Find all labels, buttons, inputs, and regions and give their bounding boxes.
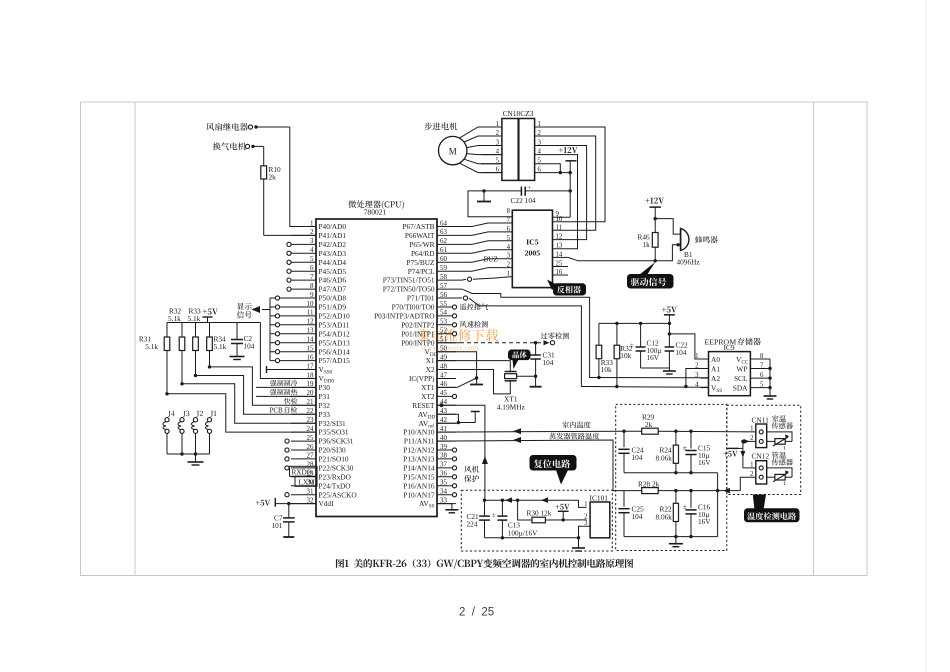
resistor R33 5.1k (188, 307, 202, 376)
wire CN18CZ3 pin4 to IC5 pin13 (535, 155, 578, 249)
ground below C31 (530, 386, 542, 388)
IC9 pin labels A0 A1 A2 Vss Vcc WP SCL SDA (711, 355, 749, 394)
svg-text:P74/PCL: P74/PCL (408, 267, 435, 276)
IC5 right pin numbers (553, 211, 569, 276)
svg-text:104: 104 (632, 512, 643, 521)
svg-text:13: 13 (556, 243, 563, 250)
svg-text:P67/ASTB: P67/ASTB (402, 222, 434, 231)
svg-text:IC101: IC101 (590, 493, 609, 502)
wire CPU pin49 X1 to crystal top (437, 361, 510, 372)
svg-text:P14/AN14: P14/AN14 (403, 464, 435, 473)
svg-text:12: 12 (556, 234, 563, 241)
svg-text:5.1k: 5.1k (145, 342, 158, 351)
svg-text:5.1k: 5.1k (214, 342, 227, 351)
wire CPU pin43 AVDD (437, 414, 460, 424)
svg-text:P12/AN12: P12/AN12 (403, 446, 435, 455)
CPU pins 3-8 open terminals (287, 242, 291, 291)
svg-text:P71/TI01: P71/TI01 (407, 294, 435, 303)
svg-text:16V: 16V (647, 353, 660, 362)
svg-text:P13/AN13: P13/AN13 (403, 455, 435, 464)
svg-text:P73/TIN51/TO51: P73/TIN51/TO51 (383, 276, 435, 285)
+12V supply top (559, 147, 578, 217)
jumper J2 (192, 411, 204, 454)
wire R10 to CPU pin2 (264, 234, 316, 236)
stepper motor 步进电机 M (424, 122, 502, 172)
svg-text:224: 224 (467, 519, 478, 528)
zero-cross line 过零检测 pin51 (437, 332, 569, 345)
CPU title 微处理器(CPU) 780021 (348, 200, 404, 216)
+5V supply sensors (723, 448, 738, 456)
connector CN11 room sensor (750, 415, 793, 447)
resistor R22 8.06k (656, 491, 679, 537)
svg-text:A2: A2 (711, 374, 720, 383)
wire CPU pin44 RESET to reset circuit (437, 403, 488, 500)
svg-text:CN11: CN11 (752, 415, 770, 424)
resistor R28 2k (624, 477, 756, 493)
capacitor C13 100u/16V (492, 500, 538, 538)
svg-text:2005: 2005 (525, 249, 541, 258)
svg-text:P42/AD2: P42/AD2 (319, 240, 347, 249)
svg-text:P45/AD5: P45/AD5 (319, 267, 347, 276)
ground below C7 (283, 536, 294, 538)
wire J1 column to CPU pin21 (210, 367, 317, 405)
svg-text:104: 104 (632, 453, 643, 462)
display signal bracket 显示信号 pins 9-16 (237, 296, 291, 363)
wire +5V rail to CPU pin18 VDD0 (260, 323, 316, 379)
+5V supply to CPU pin32 VddI (256, 498, 316, 507)
svg-text:10k: 10k (601, 365, 612, 374)
svg-text:IC5: IC5 (526, 238, 539, 247)
svg-text:CN18CZ3: CN18CZ3 (503, 109, 534, 118)
svg-text:P47/AD7: P47/AD7 (319, 285, 347, 294)
capacitor C31 104 (530, 343, 555, 387)
+5V rail top left (167, 309, 260, 323)
CPU pin17 VSS0 stub with tick (267, 366, 317, 373)
ground below pin50 node (470, 378, 483, 385)
svg-text:P54/AD12: P54/AD12 (319, 329, 351, 338)
evaporator pipe temp line 蒸发器管路温度 CPU pin40 (437, 433, 624, 491)
wire CPU pin1 to fan relay (290, 127, 316, 227)
CPU left pin stub lines (291, 227, 316, 504)
capacitor C12 100u 16V (630, 323, 669, 368)
svg-text:P11/AN11: P11/AN11 (404, 437, 435, 446)
net label LXM box pin30 (295, 476, 317, 486)
reset circuit dashed box (461, 490, 612, 551)
svg-text:P41/AD1: P41/AD1 (319, 231, 347, 240)
wire CN18CZ3 pin1 to IC5 pin10 (535, 127, 605, 222)
connector CN12 pipe sensor (750, 452, 793, 484)
svg-text:4.19MHz: 4.19MHz (497, 402, 526, 411)
svg-text:P66WAIT: P66WAIT (405, 231, 435, 240)
CN18CZ3 right pin numbers (538, 121, 542, 174)
+5V supply reset (555, 504, 569, 520)
vent motor terminal 换气电机 (213, 142, 264, 150)
wire IC9 A1 loop (684, 369, 700, 389)
svg-text:P22/SCK30: P22/SCK30 (319, 464, 354, 473)
svg-text:P00/INTP0: P00/INTP0 (401, 338, 435, 347)
CPU pin31 open terminal (285, 493, 289, 497)
wire J4 column to CPU pin24 (167, 394, 316, 432)
svg-text:P65/WR: P65/WR (409, 240, 434, 249)
svg-text:P01/INTP1: P01/INTP1 (401, 329, 435, 338)
svg-text:IC9: IC9 (723, 343, 734, 352)
CPU pins 39-34 open terminals (452, 448, 456, 497)
wire CPU pin48 X2 to crystal bottom (437, 370, 510, 394)
crystal label bubble 晶体 (509, 350, 531, 369)
svg-text:P02/INTP2: P02/INTP2 (401, 320, 435, 329)
CPU left pin name labels (319, 222, 357, 508)
wire +5V to CN11 pin2 and CN12 pin1 (733, 439, 756, 468)
wire CN18CZ3 pin6 +12V line (535, 171, 572, 174)
ground below sensor box (669, 537, 683, 547)
svg-text:X2: X2 (426, 365, 435, 374)
IC5 left pin numbers (507, 208, 511, 278)
resistor R46 1k (638, 233, 659, 261)
svg-text:4096Hz: 4096Hz (677, 258, 701, 267)
IC9 right pins tie-down and ground (764, 359, 777, 399)
svg-text:P75/BUZ: P75/BUZ (407, 258, 436, 267)
wire crystal to C31 node (517, 375, 538, 378)
svg-text:1: 1 (584, 501, 587, 508)
wire J3 column to CPU pin23 (182, 384, 316, 423)
svg-text:XT1: XT1 (421, 383, 435, 392)
svg-text:SDA: SDA (733, 384, 748, 393)
jumper J3 (178, 411, 189, 454)
svg-text:P50/AD8: P50/AD8 (319, 294, 347, 303)
svg-text:8: 8 (507, 208, 511, 215)
fan protect label 风机保护 (464, 466, 479, 483)
svg-text:IC(VPP): IC(VPP) (409, 374, 435, 383)
svg-text:±: ± (630, 342, 634, 349)
+5V supply EEPROM (662, 307, 677, 324)
svg-text:16V: 16V (698, 517, 711, 526)
reset bottom rail (485, 536, 579, 539)
svg-text:1: 1 (750, 461, 753, 468)
svg-text:P15/AN15: P15/AN15 (403, 472, 435, 481)
wire J2 column to CPU pin22 (196, 376, 317, 415)
net label RXDO box pin29 (290, 466, 318, 476)
svg-text:P21/SO10: P21/SO10 (319, 455, 349, 464)
svg-text:P57/AD15: P57/AD15 (319, 356, 351, 365)
svg-text:P46/AD6: P46/AD6 (319, 276, 347, 285)
capacitor C22 104 (top) (482, 185, 572, 206)
CPU left pin numbers 1-32 (307, 219, 315, 504)
svg-text:1k: 1k (643, 240, 651, 249)
svg-text:P33: P33 (319, 410, 331, 419)
capacitor C22 104 (EEPROM) (665, 323, 688, 370)
label 强制制冷 pin19 (256, 380, 316, 388)
CPU pin54 open terminal (452, 314, 456, 318)
svg-text:P35/SO31: P35/SO31 (319, 428, 349, 437)
svg-text:11: 11 (556, 224, 563, 231)
temperature sensing dashed box (616, 404, 727, 550)
jumper J4 (163, 411, 175, 454)
capacitor C25 104 (618, 491, 644, 537)
svg-text:P16/AN16: P16/AN16 (403, 481, 435, 490)
resistor R32 10k (EEPROM) (614, 323, 633, 388)
connector CN18CZ3 body (502, 109, 535, 181)
svg-text:5.1k: 5.1k (168, 314, 181, 323)
svg-text:t: t (784, 480, 786, 487)
svg-text:5.1k: 5.1k (188, 314, 201, 323)
sensor bottom rail (624, 535, 718, 538)
svg-text:10k: 10k (620, 351, 631, 360)
resistor R33 10k (EEPROM) (596, 323, 613, 379)
figure caption 图1 (336, 559, 633, 569)
svg-text:P53/AD11: P53/AD11 (319, 320, 350, 329)
svg-text:P64/RD: P64/RD (411, 249, 435, 258)
svg-text:SCL: SCL (734, 374, 748, 383)
microcontroller U-CPU 780021 body (316, 219, 437, 517)
svg-text:104: 104 (676, 348, 687, 357)
label 快检 pin21 (284, 398, 297, 404)
svg-text:8.06k: 8.06k (656, 453, 673, 462)
svg-text:P55/AD13: P55/AD13 (319, 338, 351, 347)
thermistor pipe 管温传感器 (767, 468, 792, 487)
watermark 家电维修下载 www.gzweix.com (418, 329, 499, 353)
wire SCL line to IC9 A2 (599, 377, 709, 379)
svg-text:C22 104: C22 104 (511, 196, 537, 205)
wire CN18CZ3 pin3 to IC5 pin12 (535, 146, 587, 240)
CPU right pin numbers 64-33 (440, 219, 448, 504)
svg-text:P72/TIN50/TO50: P72/TIN50/TO50 (383, 285, 435, 294)
CPU pin53 open terminal and label 风速检测 (452, 321, 488, 328)
wire CPU pin50 VDD to ground node (437, 352, 478, 380)
resistor R29 2k (624, 413, 756, 435)
wire CPU pin58 to IC5 pin1 with test point (456, 277, 512, 282)
ground below C2 (230, 357, 245, 360)
resistor R10 2k (261, 146, 281, 235)
CPU pin55 open terminal and label 遥控排气 (452, 303, 488, 310)
svg-text:RXDO: RXDO (292, 468, 312, 476)
CPU pin45 XT2 open terminal (452, 394, 456, 398)
label 强制制热 pin20 (256, 389, 316, 397)
wire CPU pin56 to SDA line with test point (456, 296, 599, 387)
junction dots on jumper columns (165, 365, 211, 395)
ground below C22 top (477, 191, 491, 202)
svg-text:P40/AD0: P40/AD0 (319, 222, 347, 231)
jumper bottom rail and ground (167, 452, 210, 465)
crystal XT1 4.19MHz (497, 372, 526, 412)
capacitor C24 104 (618, 431, 644, 473)
svg-text:WP: WP (736, 365, 747, 374)
svg-text:P10/AN17: P10/AN17 (403, 490, 435, 499)
wire CN18CZ3 pin5 to +12V net (535, 164, 562, 175)
svg-text:P25/ASCKO: P25/ASCKO (319, 490, 357, 499)
wire C22 ground loop to IC5 pin8 (468, 191, 512, 217)
svg-text:16V: 16V (698, 458, 711, 467)
reset IC101 body (590, 493, 610, 538)
svg-text:P31: P31 (319, 392, 331, 401)
BUZ net label and wire CPU pin60 to IC5 pin3 (456, 256, 512, 264)
CPU right pin stub lines (437, 227, 456, 504)
sensor connector dashed sub-box (727, 405, 801, 494)
CPU right pin name labels (374, 222, 437, 510)
inverter label 反相器 (547, 280, 586, 296)
svg-text:RESET: RESET (412, 401, 435, 410)
CPU pin33 AVss ground (437, 504, 458, 513)
capacitor C2 104 (231, 323, 255, 357)
driver IC5 2005 body (512, 210, 552, 287)
CPU pins 25-28 open terminals (285, 439, 289, 470)
resistor R32 5.1k (168, 307, 185, 384)
reset top rail (483, 497, 587, 507)
svg-text:P51/AD9: P51/AD9 (319, 303, 347, 312)
svg-text:A0: A0 (711, 355, 720, 364)
CN18CZ3 left pin numbers and stubs (481, 121, 502, 174)
svg-text:PCB: PCB (270, 406, 284, 414)
capacitor C21 224 (467, 500, 490, 538)
wire IC9 A0 to +5V (668, 332, 709, 359)
svg-text:XT2: XT2 (421, 392, 435, 401)
svg-text:1: 1 (750, 425, 753, 432)
svg-text:P24/TxDO: P24/TxDO (319, 481, 351, 490)
fan relay terminal 风扇继电器 (206, 123, 290, 131)
svg-text:P32: P32 (319, 401, 331, 410)
svg-text:2 / 25: 2 / 25 (459, 607, 494, 619)
wire CPU pin57 to SCL line (456, 289, 599, 377)
svg-text:P70/TI00/TO0: P70/TI00/TO0 (392, 303, 435, 312)
resistor R31 5.1k (139, 323, 170, 394)
IC5 pin9 wire to +12V (553, 216, 571, 218)
wire SDA line to IC9 Vss (581, 386, 708, 389)
svg-text:P43/AD3: P43/AD3 (319, 249, 347, 258)
svg-text:±: ± (492, 511, 496, 518)
wire CPU pin42 AVref to +V tick (437, 412, 480, 424)
resistor R30 12k (518, 500, 587, 523)
svg-text:100µ/16V: 100µ/16V (508, 528, 538, 537)
page number 2 / 25 (459, 607, 494, 619)
sensor top section lower rail (624, 471, 718, 537)
IC101 pin numbers (584, 501, 588, 527)
svg-text:104: 104 (244, 342, 255, 351)
EEPROM IC9 body (705, 338, 761, 396)
svg-text:M: M (449, 146, 457, 156)
svg-text:2k: 2k (645, 420, 653, 429)
indoor temp line 室内温度 CPU pin41 (437, 421, 626, 434)
svg-text:P20/SI30: P20/SI30 (319, 446, 347, 455)
svg-text:LXM: LXM (299, 478, 316, 486)
drive signal label 驱动信号 (628, 262, 674, 288)
CPU pin52 open terminal (452, 332, 456, 336)
ground below C12/C22 (663, 371, 676, 374)
svg-text:8.06k: 8.06k (656, 512, 673, 521)
EEPROM +5V rail (599, 322, 671, 325)
wire IC5 pin14 to buzzer node (553, 257, 657, 262)
svg-text:t: t (784, 444, 786, 451)
svg-text:780021: 780021 (364, 208, 387, 217)
svg-text:101: 101 (272, 521, 283, 530)
reset circuit label bubble 复位电路 (530, 456, 576, 485)
wire CPU pin46 XT1 diagonal (437, 378, 477, 387)
svg-text:R30 12k: R30 12k (527, 509, 552, 518)
svg-text:P23/RxDO: P23/RxDO (319, 472, 351, 481)
ground below reset (572, 538, 585, 551)
svg-text:P03/INTP3/ADTRO: P03/INTP3/ADTRO (374, 312, 434, 321)
capacitor C7 101 (272, 504, 295, 537)
capacitor C16 10u 16V (683, 491, 711, 537)
IC9 left pin numbers and stubs (695, 353, 708, 389)
svg-text:104: 104 (543, 358, 554, 367)
IC101 pin3 wire to ground (577, 526, 590, 539)
svg-text:VddI: VddI (319, 499, 335, 508)
svg-text:P52/AD10: P52/AD10 (319, 312, 351, 321)
svg-text:2k: 2k (269, 173, 277, 182)
buzzer B1 4096Hz (655, 219, 717, 267)
resistor R24 8.06k (656, 431, 679, 473)
svg-text:P44/AD4: P44/AD4 (319, 258, 347, 267)
temperature detect label bubble 温度检测电路 (745, 495, 800, 522)
wire CN18CZ3 pin2 to IC5 pin11 (535, 136, 596, 230)
svg-text:A1: A1 (711, 365, 720, 374)
resistor R34 5.1k (207, 323, 227, 367)
jumper J1 (206, 411, 217, 454)
+12V supply at buzzer (645, 197, 664, 232)
svg-text:P32/SI31: P32/SI31 (319, 419, 347, 428)
wires CPU pins 64-61 to IC5 pins 7-4 (456, 223, 512, 253)
svg-text:P56/AD14: P56/AD14 (319, 347, 351, 356)
wire CPU pin59 to IC5 pin2 (456, 268, 512, 272)
label PCB自检 pin22 (270, 406, 298, 414)
svg-text:CN12: CN12 (752, 452, 770, 461)
thermistor room 室温传感器 (767, 432, 792, 451)
capacitor C15 10u 16V (683, 431, 711, 473)
svg-text:P36/SCK31: P36/SCK31 (319, 437, 354, 446)
IC9 right pin numbers and stubs (750, 353, 770, 389)
